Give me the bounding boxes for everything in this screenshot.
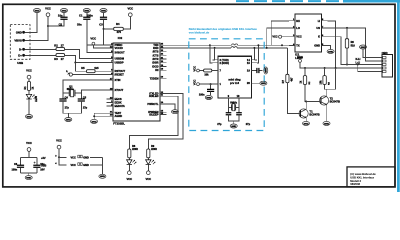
- svg-text:USB: USB: [17, 61, 23, 65]
- wire crystal caps to gnd: [63, 101, 81, 113]
- gnd below LED3: [28, 99, 30, 114]
- wire filter top: [21, 156, 37, 158]
- capacitor C5 27p: [78, 99, 85, 101]
- USB connector X1 (dashed box): [10, 25, 30, 60]
- wire IC1 K to OBD K pin: [327, 37, 382, 65]
- solder jumper SJ1: [59, 156, 67, 158]
- svg-text:D-: D-: [19, 47, 22, 51]
- svg-text:100n: 100n: [199, 93, 205, 96]
- svg-text:L-Li: L-Li: [356, 62, 361, 65]
- svg-text:GND: GND: [83, 164, 89, 167]
- IC1 pin 7 US: [321, 27, 327, 29]
- svg-text:TX: TX: [296, 43, 300, 47]
- svg-text:VCC: VCC: [145, 177, 151, 181]
- IC4 pin 2 RXD: [213, 62, 218, 64]
- IC2 pin 3 PWRC: [107, 44, 113, 46]
- svg-text:Modell 3: Modell 3: [350, 179, 361, 183]
- IC2 pin 24 RXD: [160, 47, 166, 49]
- IC2 pin 22 /CTS: [160, 54, 166, 56]
- IC1 pin 3 VCC: [289, 36, 295, 38]
- svg-text:VCCIO: VCCIO: [115, 46, 123, 50]
- svg-text:220R: 220R: [151, 148, 157, 151]
- svg-text:27: 27: [61, 43, 64, 47]
- capacitor C7 10u/16V electrolytic: [36, 157, 38, 165]
- svg-text:GND: GND: [66, 119, 71, 121]
- svg-text:RX: RX: [296, 19, 300, 23]
- svg-text:USB: USB: [41, 164, 46, 167]
- svg-text:/SLEEP: /SLEEP: [149, 112, 158, 116]
- svg-text:GND: GND: [26, 178, 31, 180]
- VCC rail to OBD: [300, 62, 382, 68]
- svg-text:EESK: EESK: [115, 101, 122, 105]
- OBD pin 5: [383, 71, 386, 73]
- wire to T1 base: [287, 83, 300, 114]
- IC2 pin 1 EESK: [107, 102, 113, 104]
- wire TXD tap to IC4: [209, 44, 211, 46]
- svg-text:/RESET: /RESET: [115, 73, 125, 77]
- IC2 pin 12 /TXLED: [160, 92, 166, 94]
- IC2 pin 11 /RXLED: [160, 95, 166, 97]
- transistor T2 BC547B: [320, 96, 329, 105]
- svg-text:LO: LO: [296, 26, 300, 30]
- test point on RESET: [69, 73, 72, 76]
- resistor 10k (IC4 reset pullup): [199, 70, 203, 72]
- capacitor C6 100n: [20, 157, 22, 165]
- svg-text:VCC: VCC: [26, 141, 32, 145]
- svg-text:R2: R2: [54, 43, 58, 47]
- svg-text:/DSR: /DSR: [152, 61, 158, 65]
- blue highlight border (top-right partial, right edge): [236, 0, 343, 2]
- svg-text:10n: 10n: [58, 14, 63, 18]
- LED3 power indicator: [28, 91, 30, 95]
- resistor R8 220R (LED chain): [128, 149, 131, 158]
- IC1 pin 5 GND: [321, 44, 327, 46]
- svg-text:27: 27: [61, 57, 64, 61]
- svg-text:GND: GND: [361, 47, 366, 49]
- IC2 pin 19 /DCD: [160, 65, 166, 67]
- svg-text:FT232BL: FT232BL: [113, 121, 125, 125]
- svg-text:2 (RXD): 2 (RXD): [220, 61, 230, 65]
- IC2 pin 18 /RI: [160, 69, 166, 71]
- OBD pin 3: [383, 64, 386, 66]
- svg-text:/RI: /RI: [155, 68, 159, 72]
- svg-text:R3: R3: [54, 57, 58, 61]
- IC2 pin 8 USBDM: [107, 58, 113, 60]
- svg-text:PWRCTL: PWRCTL: [147, 102, 159, 106]
- svg-text:EECS: EECS: [115, 97, 122, 101]
- wire XTIN: [63, 80, 107, 99]
- svg-text:(C) www.blafusel.de: (C) www.blafusel.de: [350, 172, 376, 176]
- wire IC1 LI down to rail: [327, 21, 335, 68]
- svg-text:VCC: VCC: [296, 35, 302, 39]
- resistor pull-up T1 collector: [304, 67, 306, 69]
- svg-text:VCC: VCC: [272, 36, 277, 39]
- svg-text:27p: 27p: [246, 123, 251, 126]
- gnd of Q2 caps: [229, 115, 240, 121]
- IC2 pin 14 PWRCTL: [160, 103, 166, 105]
- transceiver IC1 L9637 body: [295, 14, 322, 52]
- resistor R3 27: [25, 54, 56, 56]
- svg-text:GND: GND: [261, 83, 266, 85]
- svg-text:C2: C2: [59, 23, 63, 27]
- svg-text:XTIN: XTIN: [115, 78, 121, 82]
- capacitor 100n (IC4): [210, 84, 212, 89]
- resistor R5 1k5 (USBDP pull-up to RSTOUT): [75, 63, 86, 72]
- svg-text:10k: 10k: [204, 73, 209, 76]
- svg-text:GND: GND: [27, 116, 32, 118]
- solder jumper SJ2: [59, 157, 67, 165]
- resistor R1 1k (power LED): [28, 79, 30, 82]
- wire RXD tap to IC4: [214, 47, 216, 49]
- svg-text:GND: GND: [92, 121, 97, 123]
- microcontroller IC4 body: [218, 56, 251, 98]
- svg-text:1k5: 1k5: [94, 66, 99, 70]
- gnd symbol above C2: [60, 9, 67, 13]
- svg-text:C3: C3: [99, 23, 103, 27]
- IC4 pin 3 TXD: [213, 59, 218, 61]
- resistor R6 510 (K pull-up): [346, 28, 348, 39]
- svg-text:XTOUT: XTOUT: [115, 88, 124, 92]
- wire RXLED loop: [129, 96, 178, 149]
- svg-text:VCC: VCC: [192, 79, 196, 85]
- svg-text:/RTS: /RTS: [153, 50, 159, 54]
- IC2 pin 10 /SLEEP: [160, 113, 166, 115]
- gnd symbol above C1: [83, 9, 90, 13]
- gnd symbol OBD: [359, 45, 366, 49]
- resistor R2 27: [25, 48, 56, 50]
- svg-text:GND: GND: [314, 43, 320, 47]
- IC2 pin 25 TXD: [160, 44, 166, 46]
- svg-text:GND: GND: [206, 97, 211, 99]
- svg-text:IC2: IC2: [118, 36, 123, 40]
- svg-text:GND: GND: [264, 68, 266, 73]
- OBD pin 1: [383, 57, 386, 59]
- IC2 pin 20 /DSR: [160, 62, 166, 64]
- svg-text:R4: R4: [116, 22, 120, 26]
- svg-text:470: 470: [117, 30, 122, 34]
- IC2 pin 31 TEST: [107, 112, 113, 114]
- capacitor 27p left of Q2: [226, 113, 232, 115]
- svg-text:GND: GND: [16, 30, 22, 34]
- wire IC4 pin14 to RXD: [253, 48, 255, 60]
- IC2 pin 30 AGND: [107, 115, 113, 117]
- gnd crystal: [65, 118, 72, 122]
- IC1 pin 8 LI: [321, 20, 327, 22]
- svg-text:/CTS: /CTS: [153, 53, 159, 57]
- wire T1 collector to T2 base: [306, 101, 321, 103]
- wire T2 collector to rail riser: [325, 68, 336, 89]
- svg-text:GND: GND: [35, 10, 40, 12]
- IC2 pin 2 EEDATA: [107, 105, 113, 107]
- svg-text:220R: 220R: [132, 148, 138, 151]
- resistor pull-up T2 collector: [324, 67, 326, 69]
- IC2 pin 16 TXDEN: [160, 77, 166, 79]
- transistor T1 BC547B: [299, 109, 308, 118]
- svg-text:LED3: LED3: [36, 95, 38, 102]
- svg-text:/DCD: /DCD: [152, 64, 158, 68]
- svg-text:GND: GND: [101, 10, 106, 12]
- schematic frame border: [3, 4, 395, 187]
- svg-text:4k7: 4k7: [291, 77, 294, 82]
- gnd jumper block: [101, 157, 103, 174]
- svg-text:VCC: VCC: [192, 66, 196, 72]
- svg-text:VBUS: VBUS: [14, 38, 22, 42]
- vcc symbol at VCCIO pin: [92, 42, 95, 45]
- OBD pin 4: [383, 67, 386, 69]
- svg-text:/RXLED: /RXLED: [149, 94, 159, 98]
- svg-text:USBDM: USBDM: [115, 57, 125, 61]
- svg-text:USB KKL Interface: USB KKL Interface: [350, 175, 374, 179]
- svg-text:von blafusel.de: von blafusel.de: [189, 31, 210, 35]
- IC2 pin 23 /RTS: [160, 51, 166, 53]
- wire T2 emitter to gnd: [326, 105, 328, 121]
- svg-text:GND: GND: [231, 126, 236, 128]
- svg-text:27p: 27p: [83, 107, 88, 110]
- svg-text:GND: GND: [328, 51, 333, 53]
- svg-text:GND: GND: [324, 123, 329, 125]
- svg-text:BC547B: BC547B: [330, 99, 340, 103]
- svg-text:C1: C1: [79, 14, 83, 18]
- vcc below chain R9: [147, 164, 149, 171]
- gnd AGND: [90, 119, 97, 123]
- IC1 pin 1 RX: [289, 20, 295, 22]
- svg-text:VCC: VCC: [26, 69, 32, 73]
- wire vcc to IC4 pin1 and 100n cap: [199, 83, 218, 85]
- LED of chain R8: [128, 158, 130, 160]
- svg-text:08/2008: 08/2008: [350, 182, 360, 186]
- IC2 pin 32 EECS: [107, 98, 113, 100]
- svg-text:VCC: VCC: [297, 55, 303, 59]
- svg-text:100n: 100n: [87, 14, 93, 18]
- svg-text:R5: R5: [81, 66, 85, 70]
- svg-text:GND: GND: [83, 156, 89, 159]
- wire USB GND: [25, 13, 37, 33]
- svg-text:27p: 27p: [65, 107, 70, 110]
- IC2 pin 4 /RESET: [107, 74, 113, 76]
- svg-text:VCC: VCC: [71, 164, 76, 167]
- OBD pin 2: [383, 60, 386, 62]
- capacitor 27p right of Q2: [236, 113, 242, 115]
- svg-text:VCC: VCC: [126, 177, 132, 181]
- wire TXD net: [166, 44, 231, 46]
- svg-text:US: US: [316, 26, 320, 30]
- node USBDP / R5 junction: [74, 62, 76, 64]
- IC2 pin 28 XTOUT: [107, 89, 113, 91]
- svg-text:VCC: VCC: [56, 139, 62, 143]
- svg-text:VCC: VCC: [45, 6, 51, 10]
- svg-text:AGND: AGND: [115, 114, 123, 118]
- IC1 pin 6 K: [321, 36, 327, 38]
- capacitor C3 100n: [103, 13, 105, 18]
- svg-text:+5V: +5V: [41, 157, 46, 160]
- wire IC1 RX to TXD: [271, 21, 289, 45]
- svg-text:10k: 10k: [319, 80, 322, 85]
- svg-text:K: K: [318, 35, 320, 39]
- wire RESET: [72, 74, 106, 76]
- svg-text:prv 2.6: prv 2.6: [230, 81, 239, 85]
- svg-text:VCC: VCC: [90, 37, 96, 41]
- IC2 pin 27 XTIN: [107, 79, 113, 81]
- svg-text:16V: 16V: [40, 168, 45, 171]
- svg-text:VCC: VCC: [71, 156, 76, 159]
- capacitor C1 33n: [86, 13, 88, 18]
- svg-text:USBDP: USBDP: [115, 61, 124, 65]
- capacitor C2 10n: [63, 13, 65, 18]
- LED of chain R9: [147, 158, 149, 160]
- svg-text:VCC: VCC: [127, 6, 133, 10]
- resistor R9 220R (LED chain): [147, 149, 150, 158]
- svg-text:BC547B: BC547B: [309, 112, 319, 116]
- wire VCC node to C2: [48, 20, 64, 26]
- branch K row down to OBD pin5: [357, 64, 359, 66]
- svg-text:6MHz: 6MHz: [67, 88, 74, 91]
- wire C3 to R4 node: [103, 20, 105, 45]
- svg-text:LI: LI: [318, 19, 321, 23]
- wire XTOUT: [81, 90, 106, 99]
- wire IC1 US to OBD supply: [327, 28, 382, 61]
- svg-text:GND: GND: [84, 10, 89, 12]
- IC1 pin 4 TX: [289, 44, 295, 46]
- wire T2 collector: [326, 89, 328, 96]
- IC1 pin 2 LO: [289, 27, 295, 29]
- svg-text:100n: 100n: [11, 168, 17, 171]
- capacitor C4 27p: [59, 99, 66, 101]
- svg-text:GND: GND: [62, 10, 67, 12]
- wire C1 to chip VCC/3V3OUT rows: [87, 20, 107, 53]
- gnd IC1: [327, 45, 330, 49]
- IC2 pin 13 VCCIO: [107, 47, 113, 49]
- svg-text:EEDATA: EEDATA: [115, 104, 125, 108]
- crystal Q1 6MHz: [63, 92, 69, 94]
- wire IC1 LO to RXD: [267, 28, 289, 48]
- svg-text:GND: GND: [100, 176, 105, 178]
- resistor 1k RXD to T1 base: [286, 48, 288, 74]
- wire TXLED loop: [148, 93, 183, 149]
- IC2 pin 21 /DTR: [160, 58, 166, 60]
- wire TEST/AGND to gnd: [94, 113, 107, 119]
- svg-text:27p: 27p: [217, 123, 222, 126]
- svg-text:/DTR: /DTR: [152, 57, 158, 61]
- wire T1 emitter to gnd: [305, 118, 307, 121]
- gnd symbol (USB shield): [33, 9, 40, 13]
- svg-text:33n: 33n: [77, 23, 82, 27]
- annotation box (not part of original): [189, 39, 264, 131]
- resistor R4 470: [104, 28, 114, 30]
- svg-text:3V3OUT: 3V3OUT: [115, 50, 126, 54]
- svg-text:GND: GND: [304, 123, 309, 125]
- svg-text:510: 510: [351, 45, 356, 48]
- svg-text:RXD: RXD: [153, 46, 159, 50]
- wire PWRCTL to gnd: [160, 104, 175, 110]
- svg-text:D+: D+: [18, 53, 22, 57]
- svg-text:TXDEN: TXDEN: [150, 76, 159, 80]
- wire T1 collector up to 1k: [305, 84, 306, 109]
- IC2 pin 5 RSTOUT: [107, 70, 113, 72]
- IC2 pin 15 /PWREN: [160, 111, 166, 113]
- gnd PWRCTL: [171, 110, 178, 114]
- gnd of IC4 100n cap: [210, 91, 212, 95]
- svg-text:GND: GND: [173, 112, 178, 114]
- wire filter bottom to gnd: [21, 172, 37, 174]
- IC2 pin 7 USBDP: [107, 62, 113, 64]
- wire IC4 pin15 to TXD: [257, 45, 258, 63]
- IC2 pin 6 3V3OUT: [107, 51, 113, 53]
- wire VBUS to VCC: [25, 17, 48, 41]
- vcc below chain R8: [128, 164, 130, 171]
- wire RXD net: [166, 47, 231, 49]
- title block: [347, 167, 395, 187]
- gnd symbol above C3: [100, 9, 107, 13]
- op-amp IC2 FT232BL body: [113, 43, 160, 121]
